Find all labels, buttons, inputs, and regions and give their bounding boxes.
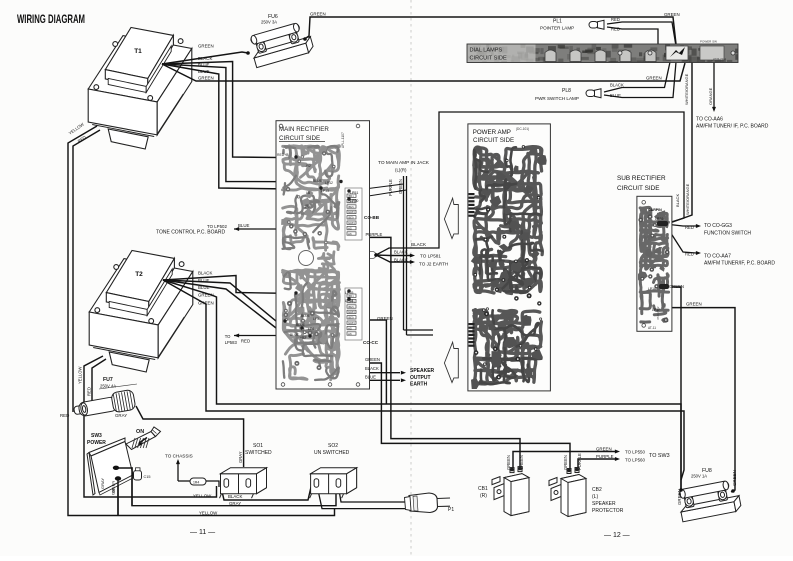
svg-text:GRAY: GRAY (229, 501, 241, 506)
svg-text:LP4: LP4 (308, 327, 314, 331)
svg-text:OUTPUT: OUTPUT (410, 375, 431, 381)
svg-text:BLUE: BLUE (198, 285, 210, 290)
svg-text:APLL-1107: APLL-1107 (341, 132, 345, 148)
svg-text:T2: T2 (135, 271, 143, 278)
svg-text:GRN: GRN (348, 210, 355, 214)
svg-text:MAIN RECTIFIER: MAIN RECTIFIER (279, 126, 329, 133)
svg-text:LP16: LP16 (648, 287, 656, 291)
svg-text:(DC-101): (DC-101) (516, 127, 529, 131)
svg-text:ON: ON (136, 429, 144, 435)
svg-text:POWER AMP: POWER AMP (473, 129, 511, 136)
svg-text:BLUE: BLUE (198, 69, 210, 74)
svg-text:POWER SW: POWER SW (700, 40, 717, 44)
svg-text:TO: TO (225, 334, 231, 339)
svg-text:AM/FM TUNER/ IF, P.C. BOAR: AM/FM TUNER/ IF, P.C. BOARD (696, 124, 769, 130)
svg-text:GRAY: GRAY (100, 478, 105, 489)
svg-text:BLACK: BLACK (228, 494, 242, 499)
svg-text:A5: A5 (348, 226, 352, 230)
svg-text:TO CO-GG3: TO CO-GG3 (704, 223, 732, 229)
svg-text:(B2): (B2) (348, 205, 354, 209)
svg-text:BLUE: BLUE (296, 323, 306, 327)
svg-text:CIRCUIT SIDE: CIRCUIT SIDE (279, 135, 320, 142)
svg-text:BLUE: BLUE (198, 63, 210, 68)
svg-text:4733-7115: 4733-7115 (713, 57, 727, 61)
svg-text:— 12 —: — 12 — (604, 532, 630, 539)
svg-text:GREEN: GREEN (310, 12, 326, 17)
svg-text:TO LP560: TO LP560 (625, 458, 645, 463)
svg-text:(L)(R): (L)(R) (395, 168, 407, 173)
svg-text:TO LP550: TO LP550 (625, 450, 645, 455)
svg-text:GREEN: GREEN (669, 284, 684, 289)
svg-text:RED: RED (611, 17, 620, 22)
svg-text:TO SW3: TO SW3 (649, 453, 670, 459)
svg-text:BLUE: BLUE (301, 314, 311, 318)
svg-text:250V 1A: 250V 1A (691, 474, 707, 479)
svg-text:4733-7762: 4733-7762 (656, 306, 660, 320)
svg-text:250V 3A: 250V 3A (261, 20, 277, 25)
svg-text:SO1: SO1 (253, 443, 263, 449)
svg-text:GRAY: GRAY (238, 451, 243, 463)
svg-text:SW3: SW3 (91, 433, 102, 439)
svg-text:EARTH: EARTH (410, 382, 428, 388)
svg-text:BLACK: BLACK (394, 257, 408, 262)
svg-text:(B): (B) (305, 204, 310, 208)
svg-text:GREEN: GREEN (398, 179, 403, 194)
svg-text:YELLOW: YELLOW (199, 511, 218, 516)
svg-text:UN SWITCHED: UN SWITCHED (314, 450, 350, 456)
svg-text:GREEN: GREEN (664, 12, 680, 17)
svg-text:GREEN: GREEN (198, 44, 214, 49)
svg-text:RED: RED (60, 413, 69, 418)
svg-text:GREEN: GREEN (198, 301, 214, 306)
svg-text:TO CO-AA7: TO CO-AA7 (704, 254, 731, 260)
svg-text:WHITE/ORANGE: WHITE/ORANGE (685, 183, 690, 215)
svg-text:GREEN: GREEN (686, 302, 702, 307)
svg-text:(B2): (B2) (348, 305, 354, 309)
svg-text:LP19: LP19 (655, 217, 663, 221)
svg-text:GRN: GRN (348, 221, 355, 225)
svg-text:GREEN: GREEN (646, 76, 662, 81)
svg-text:BLACK: BLACK (198, 56, 212, 61)
svg-text:T1: T1 (134, 48, 142, 55)
svg-text:A6: A6 (348, 332, 352, 336)
svg-text:BLACK: BLACK (394, 249, 408, 254)
svg-text:— 11 —: — 11 — (190, 529, 215, 536)
svg-text:PL8: PL8 (562, 88, 571, 94)
svg-text:(L): (L) (592, 494, 598, 500)
svg-text:LP5: LP5 (313, 317, 319, 321)
svg-text:ORANGE: ORANGE (708, 87, 713, 105)
svg-text:PURPLE: PURPLE (366, 232, 383, 237)
svg-text:SPEAKER: SPEAKER (592, 501, 616, 507)
svg-text:GREEN: GREEN (563, 455, 568, 470)
svg-text:GREEN: GREEN (732, 470, 737, 486)
svg-text:BLUE: BLUE (610, 93, 621, 98)
svg-text:RED: RED (241, 339, 250, 344)
svg-text:PL1: PL1 (553, 19, 562, 25)
svg-text:A6: A6 (348, 232, 352, 236)
svg-text:BLUE: BLUE (365, 375, 376, 380)
svg-text:BLUE: BLUE (198, 278, 210, 283)
svg-text:GRN: GRN (348, 310, 355, 314)
svg-text:GREEN: GREEN (198, 293, 214, 298)
svg-text:BLUE: BLUE (313, 179, 323, 183)
svg-text:1R4: 1R4 (193, 481, 199, 485)
svg-text:TO CHASSIS: TO CHASSIS (165, 454, 193, 459)
svg-text:SPEAKER: SPEAKER (410, 368, 435, 374)
svg-text:POWER: POWER (87, 440, 106, 446)
svg-text:YELLOW: YELLOW (193, 494, 212, 499)
svg-text:FUNCTION SWITCH: FUNCTION SWITCH (704, 231, 751, 237)
svg-text:PURPLE: PURPLE (596, 454, 614, 459)
svg-text:A5: A5 (348, 326, 352, 330)
svg-text:RED+B: RED+B (277, 153, 289, 157)
svg-text:BLUE: BLUE (290, 333, 300, 337)
svg-text:TO LP581: TO LP581 (420, 253, 441, 258)
svg-text:CO-BB: CO-BB (364, 215, 380, 220)
svg-text:AT-11: AT-11 (648, 326, 656, 330)
svg-text:LP12: LP12 (325, 181, 333, 185)
svg-text:GREEN: GREEN (377, 316, 393, 321)
svg-text:CO-CC: CO-CC (363, 340, 379, 345)
svg-text:C15: C15 (144, 475, 151, 479)
svg-text:YELLOW: YELLOW (78, 366, 83, 384)
svg-text:CIRCUIT SIDE: CIRCUIT SIDE (617, 185, 660, 192)
svg-text:GREEN: GREEN (365, 357, 380, 362)
svg-text:RED: RED (685, 252, 694, 257)
svg-text:BLACK: BLACK (198, 271, 212, 276)
svg-text:CARPIN: CARPIN (648, 208, 662, 212)
svg-text:DIAL LAMPS: DIAL LAMPS (470, 48, 503, 54)
svg-text:POINTER LAMP: POINTER LAMP (540, 26, 574, 31)
svg-text:CIRCUIT SIDE: CIRCUIT SIDE (470, 56, 507, 62)
svg-text:LB: LB (306, 191, 311, 195)
svg-text:GRN: GRN (348, 321, 355, 325)
svg-text:(R): (R) (480, 493, 487, 499)
svg-text:GREEN: GREEN (596, 447, 612, 452)
svg-text:BLACK: BLACK (365, 366, 379, 371)
svg-text:CIRCUIT SIDE: CIRCUIT SIDE (473, 137, 514, 144)
svg-text:WHITE/ORANGE: WHITE/ORANGE (684, 73, 689, 105)
svg-text:BLACK: BLACK (610, 83, 624, 88)
svg-text:PROTECTOR: PROTECTOR (592, 508, 624, 514)
svg-text:TO LP502: TO LP502 (207, 224, 227, 229)
svg-text:TONE CONTROL P.C. BOARD: TONE CONTROL P.C. BOARD (156, 230, 225, 236)
svg-text:AM/FM TUNER/IF, P.C. BOARD: AM/FM TUNER/IF, P.C. BOARD (704, 261, 775, 267)
svg-text:CB2: CB2 (592, 487, 602, 493)
svg-text:SUB RECTIFIER: SUB RECTIFIER (617, 175, 666, 182)
svg-text:LP51: LP51 (350, 191, 358, 195)
svg-text:LP583: LP583 (225, 340, 238, 345)
svg-text:TO MAIN AMP IN JACK: TO MAIN AMP IN JACK (378, 160, 430, 166)
svg-text:GREEN: GREEN (198, 76, 214, 81)
svg-text:P1: P1 (448, 507, 454, 513)
svg-text:GREEN: GREEN (111, 481, 116, 495)
svg-text:-R2: -R2 (305, 164, 311, 168)
svg-text:TO CO-AA6: TO CO-AA6 (696, 117, 723, 123)
svg-text:GRAY: GRAY (115, 413, 127, 418)
svg-text:(B3): (B3) (348, 316, 354, 320)
svg-text:BLACK: BLACK (411, 242, 427, 247)
svg-text:BLUE: BLUE (238, 223, 250, 228)
svg-text:PWR SWITCH LAMP: PWR SWITCH LAMP (535, 96, 579, 101)
svg-text:BLACK: BLACK (675, 194, 680, 207)
svg-text:+B2: +B2 (300, 336, 306, 340)
svg-text:RED: RED (87, 387, 92, 396)
svg-text:PURPLE: PURPLE (388, 179, 393, 196)
svg-text:FU7: FU7 (103, 377, 113, 383)
svg-text:(B3): (B3) (348, 216, 354, 220)
svg-text:TO J2 EARTH: TO J2 EARTH (419, 261, 448, 266)
svg-text:CB1: CB1 (478, 486, 488, 492)
svg-text:RED: RED (611, 27, 620, 32)
svg-text:SWITCHED: SWITCHED (245, 450, 272, 456)
svg-text:LP50: LP50 (350, 199, 358, 203)
svg-text:WIRING DIAGRAM: WIRING DIAGRAM (17, 14, 85, 26)
svg-text:RED: RED (685, 225, 694, 230)
svg-text:LP13: LP13 (321, 189, 329, 193)
svg-text:SO2: SO2 (328, 443, 338, 449)
